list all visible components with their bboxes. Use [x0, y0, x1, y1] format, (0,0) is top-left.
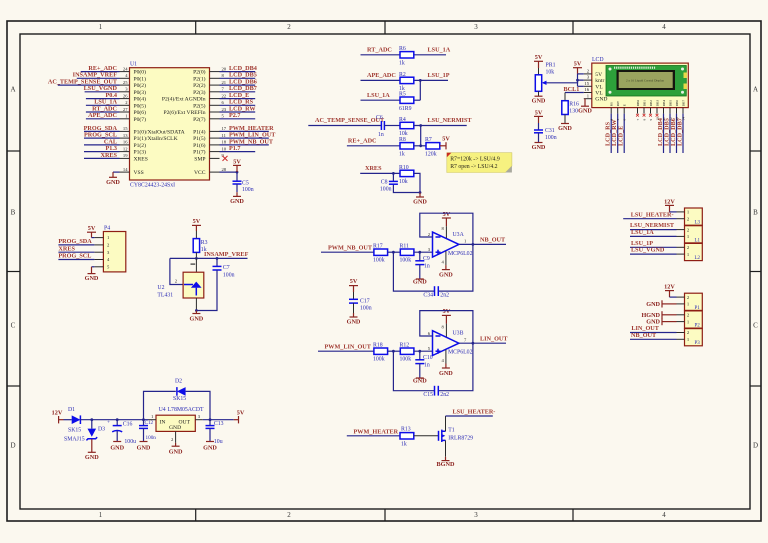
wire R5 to LSU_1P junction	[419, 80, 421, 100]
svg-text:15: 15	[123, 126, 128, 131]
svg-text:RS: RS	[610, 102, 614, 106]
svg-text:TL431: TL431	[157, 293, 173, 299]
svg-text:R4: R4	[399, 117, 406, 123]
IC U4 L78M05ACDT	[149, 407, 205, 443]
wire C7 down to GND rail	[196, 270, 217, 311]
svg-text:XRES: XRES	[58, 245, 75, 252]
resistor R11 100k	[400, 243, 414, 263]
svg-text:LSU_NERMIST: LSU_NERMIST	[428, 117, 473, 124]
LCD module body	[592, 57, 689, 108]
svg-text:D2: D2	[175, 379, 182, 385]
svg-text:E: E	[623, 104, 627, 106]
U1 pin 3 P0(3) / wire net LSU_VGND	[84, 85, 146, 96]
svg-text:GND: GND	[646, 301, 660, 308]
svg-text:100k: 100k	[373, 258, 385, 264]
svg-text:P0(1): P0(1)	[134, 75, 147, 82]
svg-text:5V: 5V	[595, 72, 602, 78]
LCD bottom pin / wire net LCD_DB7	[677, 108, 684, 153]
svg-text:SK15: SK15	[68, 428, 81, 434]
U1 pin 12 P1(3) / wire net P1.3	[84, 145, 146, 156]
LCD pin 1 GND	[584, 93, 608, 102]
svg-text:GND: GND	[169, 449, 183, 456]
P4 pin 2	[94, 243, 110, 248]
svg-text:GND: GND	[439, 370, 453, 377]
svg-text:VL: VL	[595, 84, 603, 90]
svg-text:100n: 100n	[360, 306, 372, 312]
svg-text:XRES: XRES	[365, 165, 382, 172]
node junction R2/R5	[419, 79, 422, 82]
wire net APE_ADC / LSU_1P row	[361, 72, 450, 80]
svg-text:LSU_HEATER-: LSU_HEATER-	[631, 211, 674, 218]
svg-text:20: 20	[222, 66, 227, 71]
svg-text:DB3: DB3	[655, 100, 659, 107]
svg-text:C13: C13	[214, 421, 224, 427]
svg-text:LSU_1A: LSU_1A	[367, 92, 390, 99]
svg-text:SMAJ15: SMAJ15	[64, 437, 85, 443]
ground GND below C10	[413, 377, 427, 384]
svg-text:D: D	[753, 442, 758, 450]
svg-text:L1: L1	[695, 238, 701, 243]
capacitor C7 100n	[213, 258, 235, 278]
svg-text:XRES: XRES	[134, 156, 148, 162]
U1 pin 26 P0(4) / wire net P0.4	[86, 92, 146, 103]
wire net XRES left	[58, 245, 94, 252]
P4 pin 5	[94, 264, 110, 269]
capacitor C10 1n	[415, 351, 432, 378]
svg-text:GND: GND	[110, 444, 124, 451]
svg-text:22: 22	[222, 93, 227, 98]
svg-text:1k: 1k	[401, 442, 407, 448]
svg-text:R16: R16	[569, 101, 579, 107]
svg-text:DB1: DB1	[642, 100, 646, 107]
U1 pin 11 P1(5) / wire net PWM_LIN_OUT	[193, 132, 276, 143]
svg-text:R10: R10	[399, 165, 409, 171]
svg-text:C16: C16	[123, 421, 133, 427]
capacitor C17 100n	[349, 292, 372, 313]
svg-text:R18: R18	[373, 342, 383, 348]
supply 5V above PR1	[534, 54, 543, 68]
svg-text:DB7: DB7	[681, 100, 685, 107]
svg-text:DB0: DB0	[636, 100, 640, 107]
U1 pin 10 P1(7) / wire net P1.7	[193, 145, 255, 156]
wire junction R8 node up to R4 row	[420, 126, 422, 146]
wire net LSU_NERMIST to L1	[630, 222, 677, 229]
svg-text:P1(6): P1(6)	[193, 142, 206, 149]
capacitor C34 2n2	[423, 286, 449, 298]
svg-text:13: 13	[123, 133, 128, 138]
capacitor C31 100n	[534, 123, 557, 143]
svg-text:R12: R12	[400, 342, 410, 348]
svg-text:P1(2): P1(2)	[134, 142, 147, 149]
wire C6 to R4	[384, 125, 400, 127]
svg-text:GND: GND	[532, 144, 546, 151]
U1 pin 8 P2(1) / wire net LCD_DB5	[193, 72, 257, 83]
wire TL431 ref loop	[170, 258, 183, 284]
svg-text:GND: GND	[558, 125, 572, 132]
svg-text:P4: P4	[104, 226, 110, 232]
svg-text:15: 15	[584, 81, 589, 86]
svg-text:R2: R2	[399, 72, 406, 78]
svg-text:130: 130	[569, 108, 578, 114]
LCD bottom pin / wire net LCD_RW	[611, 108, 618, 153]
resistor R2 1k	[399, 72, 414, 92]
resistor R3 1k	[193, 231, 207, 258]
svg-text:5V: 5V	[535, 54, 543, 61]
svg-text:1: 1	[99, 23, 103, 31]
transistor T1 IRLR8729	[439, 428, 474, 442]
wire net LIN_OUT to P3	[630, 325, 677, 332]
connector P1	[677, 293, 703, 311]
node junction X U3B	[392, 350, 395, 353]
svg-text:DB5: DB5	[668, 100, 672, 107]
resistor R18 100k	[373, 342, 388, 362]
U1 pin 6 P2(5) / wire net LCD_RS	[193, 99, 255, 110]
svg-text:120k: 120k	[425, 151, 437, 157]
svg-text:LIN_OUT: LIN_OUT	[480, 335, 508, 342]
supply 5V at R7	[440, 136, 451, 150]
U1 pin 27 P0(6) / wire net RT_ADC	[86, 105, 146, 116]
svg-text:P3: P3	[695, 341, 701, 346]
svg-text:R7=120k -> LSU/4.9: R7=120k -> LSU/4.9	[450, 157, 500, 163]
U1 pin 18 P1(6) / wire net PWM_NB_OUT	[193, 138, 274, 149]
svg-text:RW: RW	[616, 100, 620, 106]
LCD bottom pin names	[610, 100, 686, 107]
node junction output U3B	[472, 342, 475, 345]
ground GND below C5	[230, 192, 244, 205]
wire output net LIN_OUT	[459, 335, 508, 343]
svg-text:100k: 100k	[373, 357, 385, 363]
ground GND below C13	[203, 442, 217, 452]
svg-text:DB4: DB4	[662, 100, 666, 107]
node junction C9	[418, 251, 421, 254]
wire net RT_ADC / LSU_1A row	[361, 46, 451, 54]
svg-text:12V: 12V	[52, 410, 63, 417]
svg-text:21: 21	[222, 80, 227, 85]
wire R10 output loop to GND	[393, 173, 420, 192]
svg-text:D1: D1	[68, 407, 75, 413]
svg-text:R5: R5	[399, 92, 406, 98]
LCD bottom pin DB0 stub	[636, 108, 639, 117]
wire net PROG_SDA	[58, 238, 94, 245]
svg-text:19: 19	[123, 153, 128, 158]
svg-text:5V: 5V	[233, 159, 241, 166]
svg-text:12V: 12V	[664, 284, 675, 291]
svg-text:11: 11	[662, 117, 666, 121]
svg-text:1k: 1k	[399, 60, 405, 66]
svg-text:A: A	[10, 86, 15, 94]
svg-text:9: 9	[649, 119, 653, 121]
svg-text:LSU_HEATER-: LSU_HEATER-	[453, 409, 496, 416]
wire kntr/VL tie	[578, 74, 584, 86]
wire T1 source to BGND	[445, 440, 447, 456]
svg-text:GND: GND	[106, 179, 120, 186]
svg-text:NB_OUT: NB_OUT	[480, 237, 506, 244]
U1 pin 7 P2(3) / wire net LCD_DB7	[193, 85, 257, 96]
wire net NB_OUT to P3	[630, 332, 677, 339]
P4 pin 1	[94, 235, 110, 240]
svg-text:100n: 100n	[545, 135, 557, 141]
node junction X U3A	[392, 251, 395, 254]
svg-text:L2: L2	[695, 256, 701, 261]
LCD bottom pin / wire net LCD_RS	[605, 108, 612, 153]
ground GND below C16	[110, 442, 124, 452]
supply 12V at L3	[664, 198, 676, 212]
node junction XRES/C8	[392, 172, 395, 175]
ground GND at U3B pin 4	[439, 350, 453, 378]
node junction output U3A	[472, 243, 475, 246]
wire net PWM_HEATER	[347, 428, 400, 435]
svg-text:GND: GND	[230, 198, 244, 205]
ground GND at P1 pin 1	[646, 300, 676, 308]
diode D1 SK15	[68, 407, 81, 433]
resistor R10 10k	[399, 165, 414, 185]
resistor R17 100k	[373, 243, 388, 263]
potentiometer PR1 10k	[535, 63, 555, 92]
svg-text:PROG_SCL: PROG_SCL	[58, 253, 91, 260]
ground BGND	[437, 457, 455, 468]
svg-text:IRLR8729: IRLR8729	[448, 435, 473, 441]
svg-text:P2(4)/Ext AGNDIn: P2(4)/Ext AGNDIn	[162, 96, 206, 103]
svg-text:R13: R13	[401, 427, 411, 433]
svg-text:16: 16	[584, 87, 589, 92]
U1 pin 5 P2(7) / wire net P2.7	[193, 112, 255, 123]
svg-text:NB_OUT: NB_OUT	[631, 332, 657, 339]
svg-text:B: B	[753, 209, 758, 217]
svg-text:1n: 1n	[424, 263, 430, 269]
svg-text:5: 5	[616, 119, 620, 121]
svg-text:C17: C17	[360, 299, 370, 305]
supply 5V above C31	[534, 109, 543, 123]
U1 pin 13 P1(1)/XtalIn/SCLK / wire net PROG_SCL	[84, 132, 178, 143]
resistor R5 61R9	[399, 92, 414, 112]
supply 5V above R3	[192, 218, 201, 231]
svg-text:LCD_DB7: LCD_DB7	[677, 118, 684, 146]
supply 5V at LCD pin 2	[573, 61, 584, 74]
svg-text:1n: 1n	[378, 132, 384, 138]
connector L2	[677, 243, 703, 261]
svg-text:R7 open -> LSU/4.2: R7 open -> LSU/4.2	[450, 164, 497, 170]
wire net LSU_HEATER- to L3	[623, 211, 676, 218]
svg-text:14: 14	[681, 117, 685, 121]
svg-text:P2(7): P2(7)	[193, 116, 206, 123]
svg-text:100n: 100n	[223, 272, 235, 278]
ground GND below C31	[532, 143, 546, 151]
supply 5V at P4 pin 1	[87, 225, 96, 238]
svg-text:4: 4	[662, 511, 666, 519]
svg-text:DB6: DB6	[675, 100, 679, 107]
U1 pin 1 P0(7) / wire net APE_ADC	[86, 112, 146, 123]
svg-text:26: 26	[123, 93, 128, 98]
node junction TL431 GND	[195, 309, 198, 312]
svg-text:2 x 16 Liquid Crystal Display: 2 x 16 Liquid Crystal Display	[626, 79, 664, 83]
node junction R8/R7	[419, 144, 422, 147]
capacitor C12 100n	[139, 420, 156, 442]
diode D3 SMAJ15 (TVS)	[64, 420, 105, 443]
capacitor C6 1n	[376, 115, 384, 138]
svg-text:C5: C5	[242, 181, 249, 187]
connector P3	[677, 329, 703, 347]
svg-text:P0(4): P0(4)	[134, 96, 147, 103]
wire net LSU_1A to R5	[361, 92, 421, 100]
U1 pin 20 P2(0) / wire net LCD_DB4	[193, 65, 257, 76]
svg-text:GND: GND	[85, 454, 99, 461]
wire net INSAMP_VREF	[170, 251, 249, 258]
LCD bottom pin / wire net LCD_DB4	[657, 108, 664, 153]
svg-text:5V: 5V	[574, 61, 582, 68]
ground HGND at P2 pin 2	[641, 311, 676, 319]
wire 12V to D1	[64, 419, 72, 421]
connector L3	[677, 208, 703, 226]
svg-text:10: 10	[222, 146, 227, 151]
LCD pin 2 5V	[584, 69, 602, 78]
svg-text:IN: IN	[160, 420, 166, 426]
svg-text:5V: 5V	[193, 218, 201, 225]
svg-text:4: 4	[662, 23, 666, 31]
wire R13 to T1 gate	[414, 435, 439, 437]
svg-text:28: 28	[222, 167, 227, 172]
svg-text:5V: 5V	[88, 225, 96, 232]
svg-text:5V: 5V	[443, 211, 451, 218]
node junction D3	[90, 418, 93, 421]
svg-text:LSU_VGND: LSU_VGND	[631, 247, 665, 254]
P4 pin 4	[94, 257, 110, 262]
U1 pin 2 P0(5) / wire net LSU_1A	[86, 99, 146, 110]
svg-text:AC_TEMP_SENSE_OUT: AC_TEMP_SENSE_OUT	[315, 117, 385, 124]
wire net LSU_1A to L1	[630, 229, 677, 236]
LCD bottom pin DB3 stub	[656, 108, 659, 117]
svg-text:P2: P2	[695, 324, 701, 329]
svg-text:6: 6	[623, 119, 627, 121]
U1 pin 19 XRES / wire net XRES	[84, 152, 148, 163]
wire R11 to +input	[414, 251, 433, 253]
svg-text:12: 12	[668, 117, 672, 121]
wire feedback bottom loop U3B	[393, 343, 473, 391]
svg-text:APE_ADC: APE_ADC	[367, 72, 396, 79]
svg-text:14: 14	[123, 167, 128, 172]
wire net LSU_1P to L2	[630, 240, 677, 247]
svg-text:C31: C31	[545, 128, 555, 134]
supply 5V PSU output	[234, 410, 245, 424]
svg-text:18: 18	[222, 140, 227, 145]
svg-text:GND: GND	[595, 97, 607, 103]
svg-text:+: +	[107, 421, 110, 426]
wire net BCL1 to pin 16	[564, 86, 584, 93]
U1 pin 14 VSS	[113, 167, 144, 176]
svg-text:T1: T1	[448, 428, 455, 434]
svg-text:8: 8	[642, 119, 646, 121]
svg-text:MCP6L02: MCP6L02	[448, 251, 473, 257]
svg-text:23: 23	[222, 107, 227, 112]
svg-text:100k: 100k	[400, 258, 412, 264]
svg-text:PWM_LIN_OUT: PWM_LIN_OUT	[325, 343, 372, 350]
svg-text:GND: GND	[85, 275, 99, 282]
wire U4 OUT to 5V	[203, 419, 234, 421]
LCD bottom pin / wire net LCD_E	[618, 108, 625, 153]
ground GND at P4 pin 5	[85, 267, 99, 282]
supply 5V at U3B pin 8	[442, 308, 451, 337]
svg-text:P1(1)/XtalIn/SCLK: P1(1)/XtalIn/SCLK	[134, 135, 178, 142]
ground GND below U2	[190, 311, 204, 323]
svg-text:BGND: BGND	[437, 461, 455, 468]
svg-text:13: 13	[675, 117, 679, 121]
svg-text:PROG_SDA: PROG_SDA	[58, 238, 92, 245]
svg-text:D: D	[10, 442, 15, 450]
svg-text:C: C	[753, 322, 758, 330]
svg-text:P2(5): P2(5)	[193, 102, 206, 109]
svg-text:U4: U4	[159, 407, 166, 413]
svg-text:P2(3): P2(3)	[193, 89, 206, 96]
svg-text:GND: GND	[439, 272, 453, 279]
svg-text:3: 3	[474, 23, 478, 31]
svg-text:U3A: U3A	[453, 232, 465, 238]
svg-text:61R9: 61R9	[399, 106, 412, 112]
ground GND below R16	[558, 115, 572, 133]
svg-text:P2.7: P2.7	[229, 112, 241, 119]
svg-text:LSU_1P: LSU_1P	[428, 72, 450, 79]
U1 pin 4 P0(1) / wire net INSAMP_VREF	[73, 72, 146, 83]
svg-text:P2(1): P2(1)	[193, 75, 206, 82]
svg-text:100u: 100u	[124, 439, 136, 445]
svg-text:GND: GND	[413, 278, 427, 285]
svg-text:P1(4): P1(4)	[193, 128, 206, 135]
connector L1	[677, 226, 703, 244]
svg-text:kntr: kntr	[595, 78, 604, 84]
LCD bottom pin DB2 stub	[649, 108, 652, 117]
ground GND below R10 loop	[413, 193, 427, 206]
ground GND below C12	[137, 442, 151, 452]
svg-text:5V: 5V	[535, 109, 543, 116]
ground GND at P2 pin 1	[646, 318, 676, 326]
svg-text:GND: GND	[347, 319, 361, 326]
svg-text:R6: R6	[399, 46, 406, 52]
ground GND below D3	[85, 439, 99, 461]
svg-text:1n: 1n	[424, 362, 430, 368]
svg-text:MCP6L02: MCP6L02	[448, 350, 473, 356]
svg-text:GND: GND	[532, 98, 546, 105]
svg-text:PWM_HEATER: PWM_HEATER	[354, 428, 399, 435]
svg-text:APE_ADC: APE_ADC	[88, 112, 117, 119]
svg-text:5V: 5V	[442, 136, 450, 143]
svg-text:LSU_1A: LSU_1A	[631, 229, 654, 236]
svg-text:LCD: LCD	[592, 57, 604, 63]
svg-text:C15: C15	[423, 392, 433, 398]
svg-text:R7: R7	[425, 137, 432, 143]
resistor R6 1k	[399, 46, 414, 66]
svg-text:100n: 100n	[146, 435, 157, 441]
wire net LSU_VGND to L2	[630, 247, 677, 254]
svg-text:GND: GND	[169, 425, 181, 431]
svg-text:C9: C9	[423, 256, 430, 262]
svg-text:R11: R11	[400, 243, 410, 249]
svg-text:5V: 5V	[350, 278, 358, 285]
wire net RE+_ADC mid	[347, 137, 400, 145]
svg-text:P1.7: P1.7	[229, 145, 241, 152]
node junction loop/GND	[419, 191, 422, 194]
svg-text:3: 3	[474, 511, 478, 519]
wire D1 to U4 IN	[80, 419, 148, 421]
svg-text:P1(3): P1(3)	[134, 149, 147, 156]
capacitor C15 2n2	[423, 386, 449, 398]
svg-text:P1: P1	[695, 306, 701, 311]
svg-text:GND: GND	[203, 444, 217, 451]
svg-text:D3: D3	[98, 426, 105, 432]
wire net PWM_LIN_OUT	[318, 343, 374, 351]
U1 pin 22 P2(4)/Ext AGNDIn / wire net LCD_E	[162, 92, 255, 103]
svg-text:GND: GND	[413, 198, 427, 205]
ground GND below C9	[413, 278, 427, 285]
svg-text:5V: 5V	[443, 308, 451, 315]
svg-text:PR1: PR1	[546, 63, 556, 69]
